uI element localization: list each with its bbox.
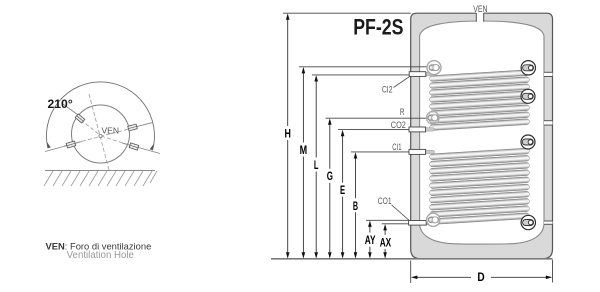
- radial ray upper-left: [62, 103, 84, 119]
- dashed axis steep: [89, 94, 109, 170]
- stub tube segment CO1: [424, 221, 435, 224]
- dimension line B: [355, 154, 357, 256]
- ground line: [45, 170, 155, 172]
- extension line B: [351, 151, 409, 153]
- stub tube segment CI2: [424, 72, 435, 75]
- svg-text:CI1: CI1: [392, 142, 401, 152]
- extension line AX: [382, 223, 409, 225]
- svg-text:AX: AX: [380, 235, 392, 249]
- stub upper-right: [128, 124, 138, 131]
- right wall tick CO2 level: [544, 121, 553, 125]
- inner vessel: [420, 21, 544, 244]
- extension line M: [299, 66, 428, 68]
- dimension line AX: [384, 226, 386, 257]
- connection stub CI2: [409, 72, 426, 77]
- dimension line L: [315, 77, 317, 256]
- stub upper-left: [75, 114, 85, 123]
- right wall tick CO1 level: [544, 221, 553, 224]
- connection stub CO1: [409, 221, 427, 226]
- svg-text:VEN: VEN: [473, 4, 488, 14]
- arc arrowhead right: [150, 144, 154, 151]
- stub lower-right: [129, 143, 139, 150]
- svg-text:R: R: [400, 107, 405, 117]
- left fitting R (upper coil bottom): [427, 112, 440, 125]
- svg-text:D: D: [477, 270, 484, 284]
- right fitting upper coil mid: [521, 89, 535, 103]
- right fitting upper coil top: [521, 61, 535, 75]
- center marker VEN: [99, 134, 102, 137]
- svg-text:B: B: [353, 199, 358, 213]
- dimension line H: [287, 16, 289, 257]
- tank top-view circle: [72, 105, 130, 163]
- radial ray lower-right: [122, 143, 160, 154]
- right fitting lower coil top: [521, 135, 535, 149]
- svg-text:PF-2S: PF-2S: [353, 16, 403, 40]
- D dimension: [410, 261, 412, 284]
- svg-text:210°: 210°: [48, 97, 73, 111]
- dimension line M: [302, 69, 304, 257]
- ground / base line: [271, 258, 553, 260]
- svg-text:CO2: CO2: [391, 120, 406, 130]
- 210 degree arc: [46, 82, 154, 150]
- extension line G: [326, 117, 429, 119]
- top extension line: [283, 12, 411, 14]
- stub tube segment CO2: [424, 128, 435, 131]
- connection stub CI1: [409, 149, 426, 154]
- svg-text:CO1: CO1: [378, 196, 392, 206]
- dimension line G: [329, 120, 331, 256]
- svg-text:AY: AY: [365, 233, 376, 247]
- connection stub CO2: [409, 127, 426, 132]
- dashed axis shallow: [64, 127, 138, 147]
- stub lower-left: [66, 141, 76, 148]
- svg-text:L: L: [314, 158, 319, 172]
- insulation outer shell: [411, 13, 553, 259]
- label CI2 + leader: [394, 77, 410, 88]
- stub tube segment CI1: [424, 150, 435, 153]
- svg-text:VEN: VEN: [102, 126, 119, 136]
- left fitting lower coil bottom: [427, 213, 440, 226]
- upper coil tubes: [429, 70, 529, 131]
- dimension line E: [342, 132, 344, 257]
- extension line E: [338, 129, 409, 131]
- arc arrowhead left: [47, 142, 51, 149]
- svg-text:G: G: [327, 169, 333, 183]
- dashed ray to upper-left stub: [76, 116, 101, 136]
- right wall tick CI2 level: [544, 72, 553, 76]
- dimension line AY: [369, 223, 371, 257]
- lower coil tubes: [429, 148, 529, 225]
- svg-text:E: E: [340, 183, 345, 197]
- radial ray upper-right: [133, 123, 152, 128]
- extension line L: [312, 74, 409, 76]
- VEN vent notch at top: [476, 12, 483, 22]
- svg-text:CI2: CI2: [382, 85, 393, 95]
- svg-text:H: H: [285, 126, 291, 140]
- dashed ray to lower-right stub: [101, 136, 134, 147]
- svg-text:Ventilation Hole: Ventilation Hole: [67, 250, 134, 261]
- left fitting upper coil top: [427, 61, 441, 75]
- svg-text:M: M: [300, 143, 308, 157]
- label CO1 + leader: [392, 205, 410, 221]
- ground hatch: [44, 171, 157, 186]
- right fitting lower coil bottom: [521, 215, 535, 229]
- extension line AY: [366, 219, 409, 221]
- radial ray lower-left: [45, 142, 82, 152]
